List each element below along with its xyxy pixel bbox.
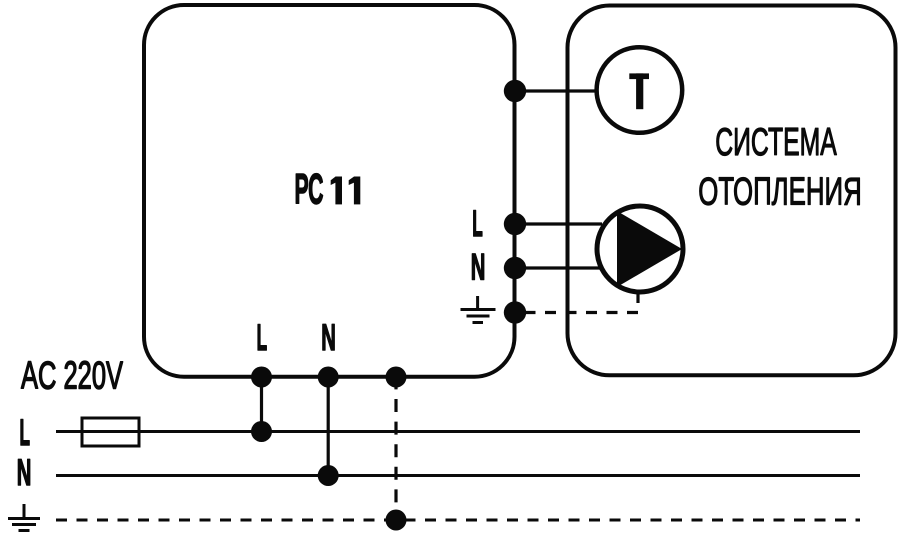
svg-text:AC 220V: AC 220V xyxy=(21,355,123,398)
svg-text:N: N xyxy=(17,451,32,493)
svg-text:L: L xyxy=(472,202,483,244)
svg-text:N: N xyxy=(471,245,486,287)
svg-text:РС: РС xyxy=(295,165,324,213)
svg-text:N: N xyxy=(321,316,336,358)
svg-text:L: L xyxy=(257,316,268,358)
svg-text:СИСТЕМА: СИСТЕМА xyxy=(715,121,837,164)
svg-text:ОТОПЛЕНИЯ: ОТОПЛЕНИЯ xyxy=(698,170,862,213)
svg-text:L: L xyxy=(19,411,30,453)
